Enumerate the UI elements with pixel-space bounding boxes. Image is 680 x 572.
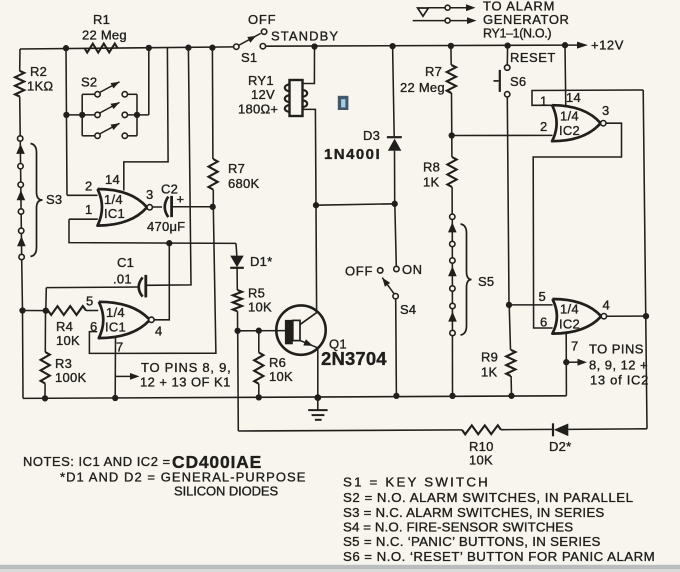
wire IC1a pin1 (69, 218, 98, 220)
switch S2 pole 1 lever (100, 82, 120, 93)
svg-text:IC1: IC1 (104, 206, 125, 221)
svg-text:RY1–1(N.O.): RY1–1(N.O.) (483, 27, 551, 41)
svg-text:S5 = N.C. ‘PANIC’ BUTTONS, IN: S5 = N.C. ‘PANIC’ BUTTONS, IN SERIES (343, 534, 601, 549)
diode D2 (553, 423, 568, 436)
label D2* (549, 439, 571, 454)
label C1 (117, 255, 134, 270)
svg-text:D1*: D1* (250, 254, 272, 269)
label ON (S4) (402, 262, 423, 277)
label legend S5 (343, 534, 601, 549)
wire R6 bottom (258, 384, 260, 398)
svg-text:5: 5 (86, 294, 93, 309)
capacitor C2 curved plate (165, 197, 169, 218)
node ground R3 (42, 395, 48, 401)
switch S4 pivot contact (393, 294, 398, 299)
svg-text:22 Meg: 22 Meg (400, 80, 445, 95)
svg-text:S6: S6 (510, 74, 526, 89)
svg-text:S1: S1 (241, 50, 257, 65)
label Q1 (329, 337, 347, 352)
switch S4 lever (382, 278, 394, 294)
label R1 value (82, 28, 127, 43)
svg-text:1/4: 1/4 (104, 192, 123, 207)
svg-text:12 + 13 OF K1: 12 + 13 OF K1 (140, 375, 231, 390)
svg-text:OFF: OFF (248, 12, 276, 27)
resistor R5 (233, 290, 242, 311)
svg-text:R7: R7 (425, 64, 442, 79)
node ground emitter (314, 394, 321, 401)
switch S6 lower contact (505, 92, 510, 97)
wire S2 stub row2 left (66, 114, 95, 116)
node S6/R9/pin5 junction (506, 302, 512, 308)
label R9 (481, 350, 498, 365)
switch S5 contact 4 (450, 286, 455, 291)
label IC2a pin2 (540, 119, 547, 134)
wire R7-22M top (450, 46, 452, 65)
label NOTES line3 (174, 484, 278, 499)
svg-text:C1: C1 (117, 255, 134, 270)
svg-text:10K: 10K (248, 300, 272, 315)
node RY1/Q1/D3 junction (313, 202, 319, 208)
svg-text:*D1 AND D2 = GENERAL-PURPOSE: *D1 AND D2 = GENERAL-PURPOSE (60, 470, 307, 485)
capacitor C1 curved plate (139, 277, 143, 296)
svg-text:12V: 12V (251, 87, 275, 102)
svg-text:14: 14 (105, 172, 120, 187)
watermark blue block (338, 96, 349, 110)
switch S5 contact 5 (450, 303, 455, 308)
wire IC1a pin14 elbow (124, 48, 168, 191)
svg-text:3: 3 (146, 187, 153, 202)
svg-text:D3: D3 (363, 128, 380, 143)
switch S1 left contact (234, 44, 239, 49)
svg-text:180Ω+: 180Ω+ (238, 102, 278, 117)
node ground pin7 IC1b (112, 395, 118, 401)
label IC2a 1/4 (560, 109, 579, 124)
svg-text:SILICON DIODES: SILICON DIODES (174, 484, 278, 499)
wire R8 to S5 (451, 187, 453, 214)
label R6 (269, 355, 286, 370)
label TO PINS (IC2) (589, 342, 644, 357)
svg-text:S2: S2 (81, 75, 97, 90)
op-amp IC2b NOR gate (552, 299, 601, 334)
node junction rail x66 (63, 45, 69, 51)
wire IC2a pin2 (452, 134, 553, 136)
label C2 plus (177, 192, 185, 207)
wire RY1 top elbow (303, 47, 315, 84)
node C2/R7-680K junction (210, 204, 216, 210)
label IC2b pin5 (539, 289, 546, 304)
label R5 value (248, 300, 272, 315)
arrow pin7 to K1 (115, 373, 139, 380)
label IC1b pin7 (116, 340, 123, 355)
resistor R2 (15, 71, 24, 97)
wire D3 top (393, 46, 395, 137)
label S5 (478, 274, 494, 289)
resistor R7 680K (209, 159, 218, 190)
label R10 (469, 439, 494, 454)
label S2 (81, 75, 97, 90)
wire top +12V rail right segment (266, 45, 567, 46)
node junction rail x149 (146, 45, 152, 51)
wire ground bus (23, 396, 566, 399)
arrow +12V (566, 42, 588, 49)
switch S5 arrow 2 (448, 266, 457, 276)
label R4 (56, 319, 73, 334)
wire IC1b pin7 (114, 337, 116, 399)
diode D3 (387, 137, 402, 151)
svg-text:TO PINS: TO PINS (589, 342, 644, 357)
label IC2a pin1 (540, 94, 547, 109)
svg-text:IC1: IC1 (105, 320, 126, 335)
svg-text:R6: R6 (269, 355, 286, 370)
svg-text:2N3704: 2N3704 (321, 348, 387, 369)
svg-text:IC2: IC2 (559, 317, 580, 332)
wire IC1a out to C2 (152, 206, 162, 208)
wire S5 chain (451, 219, 453, 396)
resistor R6 (254, 353, 263, 384)
wire to-alarm lower (413, 20, 445, 22)
wire R7-680K to pin6 elbow (89, 190, 215, 354)
switch S3 contact 5 (19, 228, 24, 233)
label RY1 12V (251, 87, 275, 102)
label IC1b pin4 (155, 324, 162, 339)
node S2 bracket row2 left (79, 112, 85, 118)
label NOTES line1 (23, 454, 171, 469)
wire IC2b pin5 (509, 304, 553, 306)
wire left rail below S3 (21, 260, 24, 311)
svg-text:1KΩ: 1KΩ (27, 79, 53, 94)
svg-text:22 Meg: 22 Meg (82, 28, 127, 43)
switch S1 lever (239, 33, 261, 45)
svg-text:RESET: RESET (510, 50, 556, 65)
wire S2 stub row1 right (128, 93, 138, 95)
switch S2 pole 3 left contact (95, 133, 100, 138)
svg-text:1: 1 (540, 94, 547, 109)
label legend S3 (343, 505, 605, 520)
svg-text:S5: S5 (478, 274, 494, 289)
switch S3 arrow 1 (16, 144, 25, 154)
label 12+13 OF K1 (140, 375, 231, 390)
svg-text:.01: .01 (113, 272, 132, 287)
wire S6 down to pin5 node (507, 97, 509, 305)
label C1 value (113, 272, 132, 287)
svg-text:R8: R8 (423, 160, 440, 175)
wire IC2b pin7 stem (565, 332, 567, 396)
svg-text:S1 = KEY SWITCH: S1 = KEY SWITCH (343, 475, 490, 490)
wire base node down to R10 rail (237, 331, 240, 431)
label IC1a pin1 (85, 202, 92, 217)
svg-text:1: 1 (85, 202, 92, 217)
wire R9 top (509, 305, 510, 350)
wire C2 to R7 node (172, 206, 213, 208)
switch S5 contact 2 (450, 241, 455, 246)
svg-text:1/4: 1/4 (560, 109, 579, 124)
svg-text:100K: 100K (55, 370, 86, 385)
node base junction (234, 328, 240, 334)
switch S1 STANDBY contact (260, 44, 265, 49)
switch S3 contact 4 (18, 209, 23, 214)
label S4 (400, 302, 416, 317)
switch S2 pole 3 right contact (122, 133, 127, 138)
wire left rail to S3 (19, 97, 22, 136)
svg-text:10K: 10K (56, 333, 80, 348)
svg-text:TO PINS 8, 9,: TO PINS 8, 9, (141, 360, 231, 375)
relay RY1 coil (285, 80, 307, 116)
transistor Q1 emitter diag (300, 339, 318, 348)
resistor R4 (48, 306, 86, 315)
label R4 value (56, 333, 80, 348)
node left rail R4 junction (19, 307, 25, 313)
label R3 value (55, 370, 86, 385)
label GENERATOR (483, 12, 570, 27)
op-amp IC1b NOR gate (99, 302, 150, 338)
svg-text:ON: ON (402, 262, 423, 277)
relay contact RY1-1 triangle (418, 8, 429, 16)
wire left rail top (19, 49, 21, 71)
label IC1b pin5 (86, 294, 93, 309)
switch S2 pole 2 lever (100, 102, 120, 113)
wire D1 to R5 (236, 268, 238, 290)
switch S5 arrow 3 (448, 312, 457, 322)
label IC2b IC2 (559, 317, 580, 332)
node pin7 arrow junction (563, 359, 569, 365)
label RESET (510, 50, 556, 65)
node S2 bracket row2 right (134, 112, 140, 118)
arrow to-alarm lower (450, 17, 476, 24)
label IC2b pin4 (603, 298, 610, 313)
label TO ALARM (483, 0, 555, 14)
wire S2 vertical from rail (66, 48, 67, 195)
label R7 value 680K (228, 176, 259, 191)
svg-text:10K: 10K (469, 453, 493, 468)
resistor R9 (506, 350, 515, 376)
svg-text:1K: 1K (481, 365, 497, 380)
svg-text:GENERATOR: GENERATOR (483, 12, 570, 27)
label CD4001AE (172, 452, 262, 472)
svg-text:S2 = N.O. ALARM SWITCHES, IN P: S2 = N.O. ALARM SWITCHES, IN PARALLEL (343, 490, 634, 505)
switch S4 ON contact (394, 266, 399, 271)
svg-text:S4: S4 (400, 302, 416, 317)
svg-text:RY1: RY1 (248, 73, 274, 88)
label S6 (510, 74, 526, 89)
node junction rail +12V end (562, 42, 568, 48)
node junction rail D3 branch (389, 43, 395, 49)
switch S5 arrow 1 (448, 222, 457, 232)
switch S5 contact 1 (450, 214, 455, 219)
label IC1a pin3 (146, 187, 153, 202)
wire Q1 collector up (315, 205, 318, 310)
switch S5 contact 3 (450, 258, 455, 263)
svg-text:4: 4 (603, 298, 610, 313)
node ground R9 (508, 393, 514, 399)
wire to-alarm upper (428, 7, 445, 9)
svg-text:D2*: D2* (549, 439, 571, 454)
arrow to-alarm upper (450, 4, 475, 11)
node junction rail x188 (185, 45, 191, 51)
svg-text:R4: R4 (56, 319, 73, 334)
wire S4 down (395, 299, 398, 396)
wire S2 right bracket (136, 94, 138, 136)
gate IC2a output bubble (601, 121, 606, 126)
wire C1 left (46, 286, 138, 289)
wire R3 bottom (44, 384, 46, 399)
svg-text:1/4: 1/4 (106, 305, 125, 320)
gate IC1a output bubble (147, 205, 152, 210)
switch S2 pole 1 right contact (122, 92, 127, 97)
transistor Q1 collector diag (300, 312, 317, 324)
wire top +12V rail left segment (20, 47, 234, 49)
node pin4 output junction (643, 313, 649, 319)
label OFF (S4) (345, 264, 373, 279)
wire S3 chain (20, 136, 22, 260)
label S1 (241, 50, 257, 65)
label D3 type 1N4001 (324, 146, 381, 163)
label R7 (22Meg) (425, 64, 442, 79)
node S2 row2 left junction (63, 112, 69, 118)
svg-text:8, 9, 12 +: 8, 9, 12 + (589, 358, 648, 373)
node junction rail S6 branch (504, 42, 510, 48)
label R9 value (481, 365, 497, 380)
label D3 (363, 128, 380, 143)
transistor Q1 base bar (285, 320, 300, 344)
switch S3 arrow 3 (17, 236, 26, 246)
wire IC2a pin1 elbow (532, 90, 643, 105)
wire pin4 elbow to feedback (154, 243, 169, 320)
label D1* (250, 254, 272, 269)
svg-text:S6 = N.O. ‘RESET’ BUTTON FOR P: S6 = N.O. ‘RESET’ BUTTON FOR PANIC ALARM (343, 549, 655, 564)
svg-text:R5: R5 (248, 286, 265, 301)
label IC2a pin14 (566, 90, 581, 105)
svg-text:14: 14 (566, 90, 581, 105)
node R7/R8/pin2 junction (449, 132, 455, 138)
label legend S2 (343, 490, 634, 505)
wire S2 stub row1 left (82, 93, 95, 95)
node junction rail x212 (209, 45, 215, 51)
ground symbol (308, 398, 327, 420)
svg-text:R1: R1 (93, 12, 110, 27)
wire left rail bottom (22, 311, 25, 399)
wire R5 to base node (237, 311, 239, 331)
svg-text:2: 2 (85, 179, 92, 194)
label C2 (161, 182, 178, 197)
svg-text:S3: S3 (46, 192, 62, 207)
svg-text:1/4: 1/4 (560, 302, 579, 317)
arrow pin7 IC2 (566, 359, 587, 366)
node D3/S4 junction (392, 201, 398, 207)
label NOTES line2 (60, 470, 307, 485)
svg-text:6: 6 (540, 315, 547, 330)
svg-text:2: 2 (540, 119, 547, 134)
label R10 value (469, 453, 493, 468)
label OFF (S1) (248, 12, 276, 27)
label R2 (30, 64, 47, 79)
diode D1 (230, 256, 244, 268)
wire S2 left bracket (81, 94, 83, 136)
label IC1a 1/4 (104, 192, 123, 207)
wire left rail to R4 (23, 310, 49, 312)
svg-text:7: 7 (571, 339, 578, 354)
switch S3 contact 2 (18, 164, 23, 169)
label IC1b 1/4 (106, 305, 125, 320)
node ground S5 (449, 393, 455, 399)
wire D3 to junction (394, 151, 396, 204)
wire D1 branch top (235, 243, 238, 255)
capacitor C1 straight plate (144, 275, 147, 298)
node junction rail R7 branch (448, 43, 454, 49)
op-amp IC1a NOR gate (98, 189, 148, 226)
node feedback/pin4 junction (166, 240, 172, 246)
wire R6 top (258, 331, 260, 353)
label legend S4 (343, 520, 573, 535)
label IC2b pin6 (540, 315, 547, 330)
switch S3 contact 6 (19, 254, 24, 259)
label +12V (591, 38, 624, 53)
resistor R3 (41, 352, 50, 384)
label IC2b pin7 (571, 339, 578, 354)
svg-text:3: 3 (602, 103, 609, 118)
wire base wire (238, 330, 285, 332)
svg-text:R2: R2 (30, 64, 47, 79)
label R8 value (423, 175, 439, 190)
wire R10 rail left (238, 430, 462, 431)
svg-text:S3 = N.C. ALARM SWITCHES, IN S: S3 = N.C. ALARM SWITCHES, IN SERIES (343, 505, 605, 520)
node ground S4 (393, 393, 399, 399)
svg-text:7: 7 (116, 340, 123, 355)
wire RY1 bottom elbow (303, 109, 317, 205)
label legend S6 (343, 549, 655, 564)
svg-text:10K: 10K (269, 369, 293, 384)
label RY1-1(N.O.) (483, 27, 551, 41)
svg-text:13 of IC2: 13 of IC2 (590, 373, 649, 388)
resistor R10 (462, 425, 501, 434)
label IC2a IC2 (559, 123, 580, 138)
wire IC2a out loop to IC2b in (533, 123, 621, 328)
wire D2 to corner (568, 428, 647, 431)
label IC1a IC1 (104, 206, 125, 221)
gate IC2b output bubble (601, 314, 606, 319)
label S3 (46, 192, 62, 207)
wire R10 to D2 (501, 428, 554, 430)
label R1 (93, 12, 110, 27)
svg-text:6: 6 (90, 319, 97, 334)
svg-text:4: 4 (155, 324, 162, 339)
wire R7 to R8 (451, 93, 453, 157)
wire rail to C1 right plate (147, 48, 191, 286)
svg-text:680K: 680K (228, 176, 259, 191)
svg-text:S4 = N.O. FIRE-SENSOR SWITCHES: S4 = N.O. FIRE-SENSOR SWITCHES (343, 520, 573, 535)
svg-text:1K: 1K (423, 175, 439, 190)
svg-text:STANDBY: STANDBY (271, 29, 339, 44)
svg-text:1N400I: 1N400I (324, 146, 381, 163)
switch S1 OFF contact (261, 29, 266, 34)
wire S2 stub row3 right (128, 135, 138, 137)
wire Q1 emitter down (317, 348, 319, 397)
label R7 (680K) (228, 161, 245, 176)
label RY1 (248, 73, 274, 88)
wire C1 down to R4 node (45, 288, 48, 311)
switch S2 pole 3 lever (100, 123, 120, 134)
wire R7-680K top (211, 48, 214, 159)
label STANDBY (271, 29, 339, 44)
wire S6 top (506, 46, 508, 65)
label IC2a pin3 (602, 103, 609, 118)
label 8 9 12 + (589, 358, 648, 373)
svg-text:5: 5 (539, 289, 546, 304)
label RY1 180ohm (238, 102, 278, 117)
wire S2 stub row2 right (128, 114, 149, 116)
node R6 top (256, 328, 262, 334)
pushbutton S6 actuator (494, 70, 500, 92)
switch S6 upper contact (505, 65, 510, 70)
